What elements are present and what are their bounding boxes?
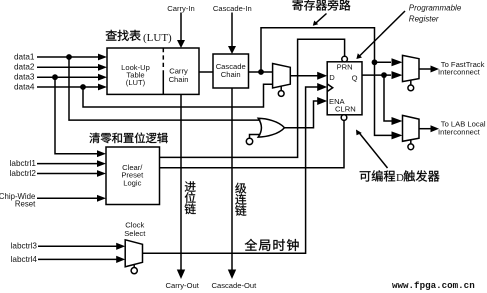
svg-text:PRN: PRN xyxy=(337,63,353,72)
wire data1 branch to OR gate xyxy=(69,57,261,120)
arrowhead into D xyxy=(317,72,327,80)
svg-text:labctrl4: labctrl4 xyxy=(11,255,38,264)
annotation arrow line (programmable register) xyxy=(359,11,405,57)
label 可编程D触发器 xyxy=(360,171,371,181)
svg-text:D: D xyxy=(329,73,335,82)
svg-text:data3: data3 xyxy=(14,73,35,82)
annotation arrowhead (programmable D flip-flop) xyxy=(356,130,362,136)
wire Q branch to mux M3 xyxy=(384,75,394,121)
node Q junction xyxy=(381,72,387,78)
annotation arrowhead (programmable register) xyxy=(356,53,362,59)
wire data3 xyxy=(37,76,99,78)
svg-text:data2: data2 xyxy=(14,63,35,72)
label Programmable Register (italic) xyxy=(409,3,462,23)
svg-text:Cascade-Out: Cascade-Out xyxy=(212,281,258,290)
OR gate lower input circle xyxy=(250,135,261,139)
svg-text:Interconnect: Interconnect xyxy=(438,127,481,136)
wire mux M2 out xyxy=(419,68,431,70)
wire labctrl3 xyxy=(38,245,117,247)
label 寄存器旁路 xyxy=(292,0,302,11)
node cascade-out junction xyxy=(258,69,264,75)
node bypass junction xyxy=(372,59,378,65)
OR gate G1 (ENA) xyxy=(258,118,284,137)
node data4 junction xyxy=(80,84,86,90)
svg-text:Logic: Logic xyxy=(123,178,141,187)
svg-text:Chain: Chain xyxy=(169,75,189,84)
svg-text:D: D xyxy=(396,172,404,184)
svg-text:data1: data1 xyxy=(14,52,35,61)
DFF clock > symbol xyxy=(327,84,333,92)
mux M2 (to FastTrack select) xyxy=(403,55,420,81)
wire labctrl2 xyxy=(37,173,97,175)
node data3 junction xyxy=(52,74,58,80)
label 查找表 (LUT heading) xyxy=(106,30,117,41)
wire Q out xyxy=(362,74,391,76)
wire labctrl4 xyxy=(38,258,117,260)
svg-text:CLRN: CLRN xyxy=(335,105,356,114)
label 进位链 (vertical) xyxy=(185,181,196,191)
Cascade Chain box xyxy=(213,54,249,88)
wire mux M3 out xyxy=(419,128,431,130)
svg-text:Q: Q xyxy=(352,73,358,82)
wire mux M1 to D xyxy=(290,75,318,77)
arrowheads into Clear/Preset xyxy=(97,150,106,157)
svg-text:(LUT): (LUT) xyxy=(143,32,172,44)
label 全局时钟 xyxy=(245,239,257,251)
arrowheads into LUT xyxy=(98,54,107,61)
svg-text:Carry-In: Carry-In xyxy=(167,4,194,13)
arrowheads into Clock Select mux xyxy=(116,243,125,250)
wire data3 branch to Clear/Preset xyxy=(55,77,97,154)
wire data4 xyxy=(37,86,99,88)
svg-text:(LUT): (LUT) xyxy=(126,78,146,87)
annotation arrowhead (register bypass) xyxy=(313,21,318,26)
mux M1 (register bypass select, before D) xyxy=(273,64,291,89)
wire Carry-Out xyxy=(180,94,182,270)
wire Chip-Wide Reset xyxy=(37,197,97,199)
wire bypass to mux M2 xyxy=(375,61,392,63)
wire clear/preset to PRN xyxy=(160,39,345,157)
arrowheads mux outputs xyxy=(431,66,440,73)
wire clear/preset to CLRN xyxy=(160,120,345,167)
svg-text:labctrl3: labctrl3 xyxy=(11,242,38,251)
svg-text:Reset: Reset xyxy=(15,199,36,208)
svg-text:www.fpga.com.cn: www.fpga.com.cn xyxy=(392,280,475,291)
svg-text:Cascade-In: Cascade-In xyxy=(213,4,252,13)
svg-text:Interconnect: Interconnect xyxy=(438,68,481,77)
wire data2 xyxy=(37,66,99,68)
svg-text:Register: Register xyxy=(409,15,439,24)
svg-text:Chain: Chain xyxy=(221,70,241,79)
wire register bypass xyxy=(261,28,394,136)
CLRN inversion bubble xyxy=(341,115,347,121)
wire Cascade-Out xyxy=(231,88,233,270)
svg-text:Programmable: Programmable xyxy=(409,3,462,12)
label 级连链 (vertical) xyxy=(235,183,246,194)
PRN inversion bubble xyxy=(342,56,348,62)
svg-text:labctrl2: labctrl2 xyxy=(10,169,37,178)
wire data4 branch to mux M1 xyxy=(83,84,273,107)
wire carry to cascade xyxy=(199,71,213,73)
svg-text:Carry-Out: Carry-Out xyxy=(166,281,200,290)
wire cascade out to mux M1 xyxy=(249,71,273,73)
node data1 junction xyxy=(66,54,72,60)
annotation arrow line (register bypass) xyxy=(315,14,327,24)
annotation arrow line (programmable D flip-flop) xyxy=(359,132,388,168)
wire labctrl1 xyxy=(37,163,97,165)
arrowhead into ENA xyxy=(317,97,327,105)
label Chip-Wide Reset xyxy=(0,192,36,209)
mux M3 (to LAB Local select) xyxy=(403,115,420,141)
wire data1 xyxy=(37,56,99,58)
arrowhead into clock xyxy=(317,83,327,91)
wire Cascade-In xyxy=(231,13,233,47)
svg-text:data4: data4 xyxy=(14,82,35,91)
arrowheads Carry-Out / Cascade-Out xyxy=(177,270,185,280)
LUT / Carry Chain box xyxy=(107,48,199,94)
wire clock select to DFF clock xyxy=(143,87,319,253)
LUT/Carry divider (dashed top, solid bottom) xyxy=(162,48,164,72)
arrowheads Carry-In / Cascade-In xyxy=(177,40,185,48)
wire Carry-In xyxy=(180,13,182,41)
label 清零和置位逻辑 xyxy=(89,133,99,143)
arrowheads into mux M2 xyxy=(392,58,403,66)
Clear/Preset Logic box xyxy=(106,147,160,205)
mux M4 (Clock Select) xyxy=(125,240,142,267)
D flip-flop U1 box xyxy=(327,62,362,115)
svg-text:Select: Select xyxy=(124,229,146,238)
arrowheads into mux M3 xyxy=(392,117,403,125)
svg-text:labctrl1: labctrl1 xyxy=(10,159,37,168)
wire OR gate to ENA xyxy=(284,101,318,128)
